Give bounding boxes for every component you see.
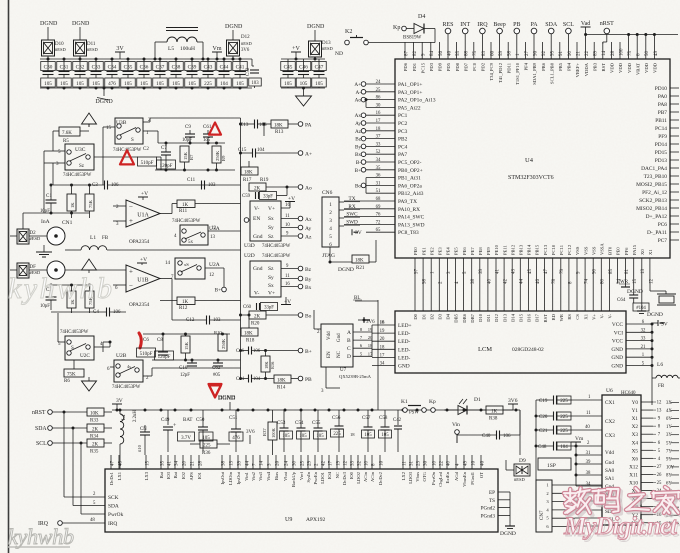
resistor R14 18K [274, 375, 291, 383]
capacitor C44 [223, 58, 226, 61]
node A+ at U4 [361, 82, 366, 87]
node Ax at U4 [361, 113, 366, 118]
wire R5 to U3C [53, 130, 59, 132]
mux U3C 74HC4053PW [65, 144, 94, 170]
wire U4 right pin PD13 [670, 159, 679, 161]
wire top bus of cap bank [40, 58, 252, 60]
mux U3B 74HC4053PW [115, 118, 143, 144]
wire U4 left pin 69 PA10_RX [366, 208, 395, 210]
wire U4-LCM bus line 0 [414, 258, 416, 311]
wire U3B pin15 down to C3 row [103, 126, 110, 128]
wire U4 right pin PA0 [670, 95, 679, 97]
ground DGND below U9 right [509, 523, 511, 526]
wire U9 top pin 11 LX2 [402, 455, 404, 469]
wire U9 top pin 4 AGd [455, 455, 457, 469]
wire U4-LCM bus line 19 [568, 258, 570, 311]
wire U4-LCM bus line 14 [527, 258, 529, 311]
red marker triangle 3 [209, 384, 222, 397]
connector CN2 input B [47, 261, 65, 279]
wire U3C pins to left rail [44, 150, 58, 152]
wire U4 top pin PD8 pin 55 [456, 42, 458, 59]
wire U4-LCM bus line 4 [446, 258, 448, 311]
page border line left [8, 0, 10, 553]
ic U7 QX5239B [321, 324, 353, 367]
wire U9 top pin 35 Bat [160, 455, 162, 469]
wire U4 left pin 36 PB1_Ai31 [366, 177, 395, 179]
wire LCM left pin 19 LED- [372, 332, 395, 334]
wire U9 top pin 26 Bias [275, 455, 277, 469]
wire U4 left pin 76 PA14_SWC [366, 216, 395, 218]
wire U9 top pin 36 OTG [423, 455, 425, 469]
wire U4-LCM bus line 13 [519, 258, 521, 311]
ground DGND below cap bank [103, 87, 106, 90]
wire CN1 to D2 [10, 235, 17, 237]
capacitor C45 [287, 59, 289, 72]
ic U6 HC640 [602, 395, 641, 525]
wire U9 top pin 24 Vbat [284, 455, 286, 469]
paper noise overlay [0, 0, 1, 1]
node Bz at U4 [361, 136, 366, 141]
wire net above C7 [158, 142, 225, 144]
wire U4-LCM bus line 9 [487, 258, 489, 311]
wire U4-LCM bus line 6 [463, 258, 465, 311]
wire U9 top pin 45 LX1 [118, 455, 120, 469]
wire U4 left pin 31 PA6_OP2a [366, 184, 395, 186]
node PA [298, 122, 303, 127]
wire U4 left pin 52 PA7 [366, 153, 395, 155]
wire U4-LCM bus line 20 [576, 258, 578, 311]
wire LCM left pin 20 LED- [372, 340, 395, 342]
resistor R33 10K [52, 411, 87, 413]
wire U4 top pin PD5 pin 46 [447, 42, 449, 59]
wire U9 top pin 16 PGnd1 [471, 455, 473, 469]
wire U4-LCM bus line 24 [608, 258, 610, 311]
wire U4 left pin 35 PB0_OP2+ [366, 169, 395, 171]
wire U9 top pin 31 LDO3 [409, 455, 411, 469]
wire U4 right pin PF2_Ai_12 [670, 191, 679, 193]
connector CN7 [536, 480, 552, 532]
diode D3 ESD [17, 263, 29, 278]
resistor R12 1K [177, 297, 195, 305]
wire U9 top pin 42 LDO1 [321, 455, 323, 469]
wire U4 right pin PB7 [670, 111, 679, 113]
wire row below C10 [152, 359, 241, 361]
wire U4 top pin T41_PD12 pin 59 [499, 42, 501, 59]
diode D2 ESD [17, 229, 29, 244]
wire U9 top pin 17 IO4 [328, 455, 330, 469]
wire mid vertical rail [240, 118, 242, 380]
wire U4 top pin PB5 pin 91 [559, 42, 561, 59]
crystal B1 [649, 283, 651, 291]
resistor R17 18K [241, 167, 258, 175]
wire U4-LCM bus line 8 [479, 258, 481, 311]
wire U4 left pin 72 PA13_SWD [366, 223, 395, 225]
ground symbol below C46 [302, 87, 305, 90]
wire row above C6 [143, 333, 230, 335]
wire U4 top pin PB4 pin 90 [567, 42, 569, 59]
wire U4 top pin SDA1_PB9 pin 96 [533, 42, 535, 59]
power 3V tap right of LCM [657, 320, 659, 326]
mux U2A 74HC4053PW [175, 258, 205, 279]
red marker triangle 2 [209, 123, 221, 135]
capacitor C34 [111, 58, 114, 61]
wire U4 right pin MISO2_PB14 [670, 207, 679, 209]
wire U9 top pin 10 PwrOn [432, 455, 434, 469]
wire CN2 row [65, 269, 126, 271]
wire U4-LCM bus line 17 [552, 258, 554, 311]
wire U9 top pin 23 Vbus [416, 455, 418, 469]
wire U4 top pin PB3 pin 89 [593, 42, 595, 59]
wire U4-LCM bus line 2 [430, 258, 432, 311]
wire U4 right pin PD15 [670, 151, 679, 153]
node B- at U4 [361, 160, 366, 165]
wire U9 top pin 39 IpsOut [237, 455, 239, 469]
node A+ mid [298, 151, 303, 156]
wire U4 top pin T34_PC9 pin 66 [490, 42, 492, 59]
capacitor C38 [175, 58, 178, 61]
wire U9 top pin 34 Bat [174, 455, 176, 469]
wire U4-LCM bus line 5 [455, 258, 457, 311]
node Az at U4 [361, 129, 366, 134]
wire net below C7 row [155, 169, 235, 171]
wire U1B output [160, 278, 172, 280]
wire U4 left pin 17 PC2 [366, 122, 395, 124]
wire U9 top pin 19 NC [336, 455, 338, 469]
wire U9 top pin 28 IO1 [198, 455, 200, 469]
wire U9 top pin 41 IO3 [167, 455, 169, 469]
U3D EN wire [244, 218, 249, 223]
wire U4 left pin 16 PC1 [366, 114, 395, 116]
node PB mid [298, 376, 303, 381]
wire U4 left pin 34 PC5_OP2- [366, 161, 395, 163]
wire U4-LCM bus line 7 [471, 258, 473, 311]
wire LCM left pin 17 LED- [372, 356, 395, 358]
wire U9 top pin 15 LX3 [145, 455, 147, 469]
wire U9 top pin 21 APS [190, 455, 192, 469]
wire BL vertical [377, 300, 379, 410]
node By at U4 [361, 144, 366, 149]
wire U4 left pin 24 PA1_OP1+ [366, 83, 395, 85]
bracket around Bo pins [365, 178, 367, 194]
wire U4 top pin PD7 pin 88 [464, 42, 466, 59]
box ISP [538, 458, 571, 470]
wire U4 right pin DAC1_PA4 [670, 167, 679, 169]
wire U4 left pin 65 PC8_T83 [366, 231, 395, 233]
resistor R9 250K vertical [212, 146, 221, 163]
wire U4 top pin PF4 pin 27 [524, 42, 526, 59]
wire U9 top pin 44 Vin1 [245, 455, 247, 469]
node Bo at U4 [361, 183, 366, 188]
wire U9 top pin 3 Vin4 [267, 455, 269, 469]
wire U2A to B+ node [205, 267, 224, 269]
wire U3C output right [94, 156, 138, 158]
node Bo mid [298, 313, 303, 318]
wire U9 top pin 46 OT [480, 455, 482, 469]
wire U9 top pin 14 Vin3 [259, 455, 261, 469]
wire U4 top pin VDD pin 28 [610, 42, 612, 59]
resistor R16 18K vertical [261, 356, 270, 372]
wire U4 top pin PB6 pin 92 [542, 42, 544, 59]
wire U4 top pin VDD pin 49 [653, 42, 655, 59]
display module LCM 028GD248-02 [395, 311, 626, 373]
resistor R18 18K [241, 328, 258, 336]
wire LCM right pin 33 VCC [626, 340, 652, 342]
watermark shuma zhijia (vector strokes) [570, 491, 575, 503]
resistor R35 2K [52, 442, 87, 444]
resistor R3 vertical [85, 194, 94, 211]
wire U4 right pin T23_PB10 [670, 175, 679, 177]
wire U4 top pin PD2 pin 83 [481, 42, 483, 59]
power 3V6 tap near U7 [363, 317, 365, 323]
wire U9 top pin 7 Vin2 [252, 455, 254, 469]
inductor L5 100uH [166, 27, 198, 29]
capacitor C43 [207, 58, 210, 61]
red marker triangle 1 [120, 150, 134, 164]
wire U4 left pin 68 PA9_TX [366, 200, 395, 202]
wire Vm trunk down [519, 410, 521, 455]
wire U9 top pin 25 Vref [300, 455, 302, 469]
wire U4-LCM bus line 21 [584, 258, 586, 311]
resistor R21 18K [352, 255, 369, 263]
capacitor C37 [159, 58, 162, 61]
capacitor C30 [47, 58, 50, 61]
wire U9 top pin 49 VbusEn [463, 455, 465, 469]
wire U9 top pin 32 LDO2 [357, 455, 359, 469]
capacitor C39 [191, 58, 194, 61]
resistor R2 vertical [67, 291, 76, 308]
red marker stroke [139, 333, 141, 348]
wire LCM right pin 32 VCI [626, 331, 652, 333]
mcu U4 STM32F303VCT6 [395, 59, 670, 258]
node Bx at U4 [361, 152, 366, 157]
wire U4-LCM bus line 11 [503, 258, 505, 311]
wire U1A output [160, 213, 172, 215]
wire U4 top pin PD1 pin 82 [413, 42, 415, 59]
wire U4 right pin D+_PA12 [670, 215, 679, 217]
wire K2 to U4 top pins [368, 42, 435, 44]
wire U4 right pin PC6 [670, 223, 679, 225]
wire U4 top pin PD9 pin 56 [438, 42, 440, 59]
wire U4 top pin VDD pin 50 [645, 42, 647, 59]
junction near Ao pin [365, 98, 368, 101]
power arrow triangle mid left [82, 259, 97, 270]
node Ao at U4 [361, 97, 366, 102]
wire U4 top pin PC15 pin 9 [421, 42, 423, 59]
wire U3B pin2 to mid rail [143, 121, 150, 123]
wire U4-LCM bus line 15 [536, 258, 538, 311]
wire U4 top pin T1S1_PF10 pin 1 [516, 42, 518, 59]
wire U9 top pin 47 DcDc1 [110, 455, 112, 469]
wire U4 right pin PD14 [670, 143, 679, 145]
power 3V tap at PC8 [351, 229, 353, 235]
wire U3A pin12 [208, 230, 241, 232]
wires CN7 to U6 [575, 484, 602, 486]
wire U2C out [94, 346, 110, 348]
wire U4 top pin VBAT pin 6 [636, 42, 638, 59]
wire LCM left pin 16 LED+ [372, 324, 395, 326]
capacitor C36 [143, 58, 146, 61]
wire U4-LCM bus line 1 [422, 258, 424, 311]
resistor R6 75K [64, 369, 84, 377]
resistor R8 15K vertical [181, 336, 190, 353]
node B- mid [298, 348, 303, 353]
mux U2D 74HC4053PW [250, 261, 281, 297]
wire LCM right pin 1 GND [626, 356, 652, 358]
wire U9 top pin 8 ACin [371, 455, 373, 469]
node B+ mid [222, 287, 227, 292]
wire U4 top pin VDD pin 100 [619, 42, 621, 59]
wire LCM right pin 21 GND [626, 348, 652, 350]
wire LCM left pin 18 LED- [372, 348, 395, 350]
wire LCM right pin 5 GND [626, 365, 652, 367]
wire U9 top pin 12 DcDc3 [343, 455, 345, 469]
wire U4 right pin D-_PA11 [670, 231, 679, 233]
wire U9 top bus [112, 409, 520, 411]
wire U9 top pin 22 ChgLed [439, 455, 441, 469]
wire U4 left pin 25 PA3_OP1+ [366, 91, 395, 93]
resistor R1 vertical [67, 194, 76, 211]
wire U4 left pin 18 PC3 [366, 130, 395, 132]
capacitor C52 [251, 59, 253, 66]
wire VDD top bus [586, 34, 678, 36]
wires to U6 SA pins [576, 454, 602, 456]
resistor R13 18K [271, 120, 288, 128]
wire U4 right pin PC7 [670, 239, 679, 241]
resistor R5 7.6K [59, 127, 80, 136]
wire U4 top pin PD3 pin 84 [430, 42, 432, 59]
ground chassis below CN1 [36, 251, 52, 253]
wire LCM right vertical trunk [651, 324, 653, 405]
wire U4 right pin PC14 [670, 127, 679, 129]
wire U4 top pin PC0 pin 75 [473, 42, 475, 59]
wire U4 right pin PD10 [670, 87, 679, 89]
capacitor C35 [127, 58, 130, 61]
resistor R11 1K [177, 200, 195, 208]
wire U4 left pin 86 PA2_OP1o_Ai13 [366, 99, 395, 101]
node Ay at U4 [361, 121, 366, 126]
power arrow triangle top left [82, 113, 97, 124]
wire LCM right pin 6 VCC [626, 323, 652, 325]
wires CN6 to nets [339, 201, 344, 203]
wire U9 top pin 33 IO0 [350, 455, 352, 469]
node Ao mid [298, 185, 303, 190]
resistor R7 15K vertical [180, 146, 189, 162]
wire R2 R4 bus [51, 284, 90, 286]
wire U4-LCM bus line 16 [544, 258, 546, 311]
node B+ at U4 [361, 168, 366, 173]
resistor R38 1K [486, 406, 503, 414]
wire U4 top pin PD6 pin 87 [404, 42, 406, 59]
wire C3 row [53, 184, 105, 186]
capacitor C32 [79, 58, 82, 61]
ground triangle below R6 [88, 377, 90, 381]
red marker triangle DGND above U9 [209, 385, 221, 397]
wire U4 top pin SCL1_PB8 pin 95 [550, 42, 552, 59]
capacitor C47 [318, 59, 320, 72]
wire U9 top pin 20 IO2 [182, 455, 184, 469]
wire U9 top pin 13 LDOin [229, 455, 231, 469]
wire U4 right pin MOSI2_PB15 [670, 183, 679, 185]
wire U9 top pin 10 ACin [364, 455, 366, 469]
capacitor C33 [95, 58, 98, 61]
resistor R20 2K [249, 311, 266, 319]
wire U4-LCM bus line 22 [592, 258, 594, 311]
wire left trunk of cluster [535, 400, 537, 480]
wire U4-LCM bus line 23 [600, 258, 602, 311]
resistor R34 2K [52, 427, 87, 429]
capacitor C46 [303, 59, 305, 72]
wire U9 top pin 30 BackUp [292, 455, 294, 469]
wire U2B out right [143, 375, 152, 377]
wire U4-LCM bus line 3 [438, 258, 440, 311]
wire U4 left pin 33 PC4 [366, 145, 395, 147]
wire U4 left pin 51 PB12_Ai43 [366, 192, 395, 194]
wire U4 top pin VREF+ pin 21 [576, 42, 578, 59]
U9 right pins EP TS PGnd2 PGnd3 [498, 491, 510, 493]
wire U4-LCM bus line 18 [560, 258, 562, 311]
wire U9 top pin 2 PwrEn [314, 455, 316, 469]
ground DGND small 1 [625, 283, 627, 287]
mux U3D 74HC4053PW [250, 201, 281, 241]
capacitor bank C45 C46 C47 [281, 58, 325, 60]
wire U4-LCM bus line 10 [495, 258, 497, 311]
wires U7 to LCM [353, 331, 372, 333]
wires nRST SDA SCL down to U9 [63, 412, 65, 497]
wire U4 left pin 37 PB2 [366, 138, 395, 140]
wire U4-LCM bus line 12 [511, 258, 513, 311]
wire U4 top pin PD11 pin 58 [507, 42, 509, 59]
wire U4 top pin VDD pin 75 [628, 42, 630, 59]
capacitor C31 [63, 58, 66, 61]
capacitor C41 [239, 58, 242, 61]
wire U4 right pin PF9 [670, 135, 679, 137]
wire U4 right pin SCK2_PB13 [670, 199, 679, 201]
wire U4 left pin 30 PA5_Ai22 [366, 106, 395, 108]
resistor R36 225 [200, 440, 217, 448]
wire U4 top pin VDDA pin 22 [585, 42, 587, 59]
resistor R4 vertical [85, 291, 94, 308]
wire U4 top pin RST pin 14 [602, 42, 604, 59]
wire U4 right pin PA8 [670, 103, 679, 105]
node A- at U4 [361, 90, 366, 95]
wire U9 top pin 38 IpsOut [221, 455, 223, 469]
wire LCM left pin 34 GND [372, 365, 395, 367]
wire U3B pin1 down [143, 130, 158, 132]
wire U9 top pin 16 DcDc2 [379, 455, 381, 469]
wire bottom bus of cap bank [40, 87, 252, 89]
resistor R19 2K [249, 183, 266, 191]
ic U9 APX192 [105, 469, 498, 532]
ground DGND small 2 [641, 283, 643, 311]
wire U4 right pin PB11 [670, 119, 679, 121]
wire U9 top pin 40 ExtEn [446, 455, 448, 469]
wire U9 top pin 29 SysIn [307, 455, 309, 469]
